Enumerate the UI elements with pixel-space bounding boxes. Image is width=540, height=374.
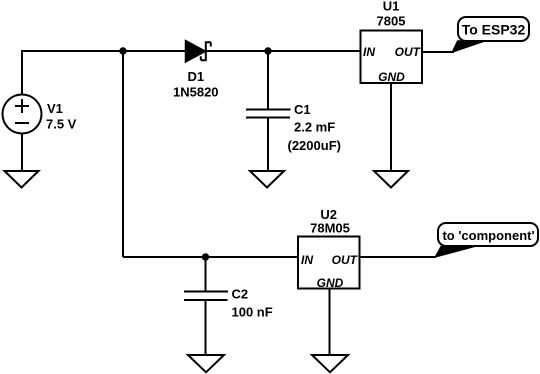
wire: U2 GND down — [329, 288, 331, 355]
callout to 'component' — [435, 223, 538, 257]
wire: D1 cathode to U1 IN — [206, 50, 360, 52]
svg-text:IN: IN — [301, 253, 313, 267]
D1 labels — [173, 69, 219, 100]
regulator U1 box — [361, 31, 423, 85]
ground (C2) — [188, 355, 224, 372]
svg-text:C1: C1 — [294, 102, 311, 117]
wire: U2 OUT to callout — [360, 256, 437, 258]
svg-text:78M05: 78M05 — [310, 221, 350, 236]
svg-text:GND: GND — [317, 276, 344, 290]
ground (U2) — [312, 355, 348, 372]
svg-text:To ESP32: To ESP32 — [462, 22, 526, 38]
wire: U1 GND down — [390, 83, 392, 171]
wire: lower rail to U2 IN — [123, 256, 298, 258]
ground (U1) — [374, 171, 408, 188]
V1 labels — [46, 101, 77, 132]
voltage source V1 — [3, 95, 42, 134]
regulator U2 box — [298, 237, 360, 291]
svg-text:OUT: OUT — [395, 45, 422, 59]
svg-text:D1: D1 — [188, 69, 205, 84]
svg-text:7805: 7805 — [377, 14, 406, 29]
svg-text:GND: GND — [378, 70, 405, 84]
U2 labels — [310, 207, 350, 236]
svg-text:2.2 mF: 2.2 mF — [294, 120, 335, 135]
node C junction dot (C2 tap) — [202, 253, 209, 260]
C1 labels — [288, 102, 341, 153]
svg-text:V1: V1 — [47, 101, 63, 116]
svg-text:C2: C2 — [232, 287, 249, 302]
node B junction dot (C1 tap) — [264, 47, 271, 54]
svg-text:IN: IN — [363, 45, 375, 59]
diode D1 (schottky) — [186, 41, 211, 63]
callout To ESP32 — [452, 17, 529, 52]
ground (V1) — [5, 171, 39, 188]
capacitor C1 — [246, 51, 291, 171]
node A junction dot — [119, 47, 126, 54]
svg-text:7.5 V: 7.5 V — [46, 117, 77, 132]
svg-text:to 'component': to 'component' — [442, 228, 534, 243]
svg-text:100 nF: 100 nF — [232, 305, 273, 320]
wire: branch down from node A — [122, 51, 124, 257]
svg-text:U1: U1 — [383, 0, 400, 14]
C2 labels — [232, 287, 273, 320]
capacitor C2 — [184, 257, 228, 355]
svg-text:OUT: OUT — [332, 253, 359, 267]
U1 labels — [377, 0, 406, 29]
wire: V1 bottom to ground — [21, 133, 23, 171]
svg-text:(2200uF): (2200uF) — [288, 138, 341, 153]
svg-text:1N5820: 1N5820 — [173, 85, 219, 100]
wire: V1 top to D1 anode — [22, 51, 186, 95]
wire: U1 OUT to callout — [422, 51, 454, 53]
ground (C1) — [250, 171, 284, 188]
